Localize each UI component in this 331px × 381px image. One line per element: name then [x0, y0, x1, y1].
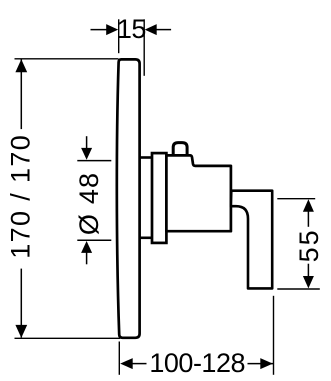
- valve body: [166, 155, 231, 231]
- dimension O48: top tick: [77, 160, 111, 162]
- dimension 15: left leader line: [91, 29, 108, 31]
- dimension 15 (top): extension line left: [118, 19, 120, 53]
- svg-text:55: 55: [294, 228, 324, 262]
- svg-text:100-128: 100-128: [149, 348, 245, 378]
- dimension O48: upper arrow (points down): [81, 148, 92, 160]
- dimension 55: bottom extension line: [277, 288, 320, 290]
- dimension 55: lower dimension line segment: [307, 264, 309, 278]
- flange ring: [152, 153, 166, 243]
- dimension 55: bottom arrow (points down): [303, 276, 314, 288]
- dimension 100-128: right extension line: [273, 296, 275, 375]
- dimension 170/170: dimension line upper segment: [20, 60, 22, 130]
- dimension 100-128: left dimension line segment: [132, 363, 147, 365]
- dimension 100-128 (bottom): left extension line: [118, 342, 120, 375]
- dimension 170/170: top arrow: [15, 59, 27, 72]
- dimension 100-128: right dimension line segment: [248, 363, 274, 365]
- svg-text:170 / 170: 170 / 170: [6, 135, 36, 259]
- dimension 15: right arrow: [145, 24, 157, 35]
- dimension 170/170: bottom extension line: [15, 337, 121, 339]
- dimension 55 (right): top extension line: [277, 198, 315, 200]
- dimension O48: bottom tick: [77, 239, 111, 241]
- escutcheon plate (side view): [117, 59, 140, 337]
- svg-text:15: 15: [117, 14, 146, 44]
- dimension 170/170: bottom arrow: [15, 325, 27, 338]
- override button: [173, 143, 187, 156]
- dimension 55: top arrow (points up): [303, 199, 314, 212]
- sleeve between plate and flange (O48): [140, 158, 152, 238]
- dimension 55: upper dimension line segment: [307, 211, 309, 227]
- dimension 15: left arrow: [106, 24, 118, 35]
- dimension 170/170: dimension line lower segment: [20, 269, 22, 338]
- dimension 100-128: right arrow (points right): [260, 358, 273, 369]
- dimension 15: extension line right: [143, 19, 145, 76]
- dimension 170/170 (left): top extension line: [15, 58, 119, 60]
- dimension 15: right leader line: [156, 29, 171, 31]
- dimension 100-128: left arrow (points left): [120, 358, 133, 369]
- dimension O48: lower arrow (points up): [81, 241, 92, 253]
- svg-text:Ø 48: Ø 48: [74, 172, 104, 235]
- dimension O48: upper leader line: [86, 136, 88, 148]
- dimension O48: lower leader line: [86, 252, 88, 264]
- handle lever: [231, 191, 272, 289]
